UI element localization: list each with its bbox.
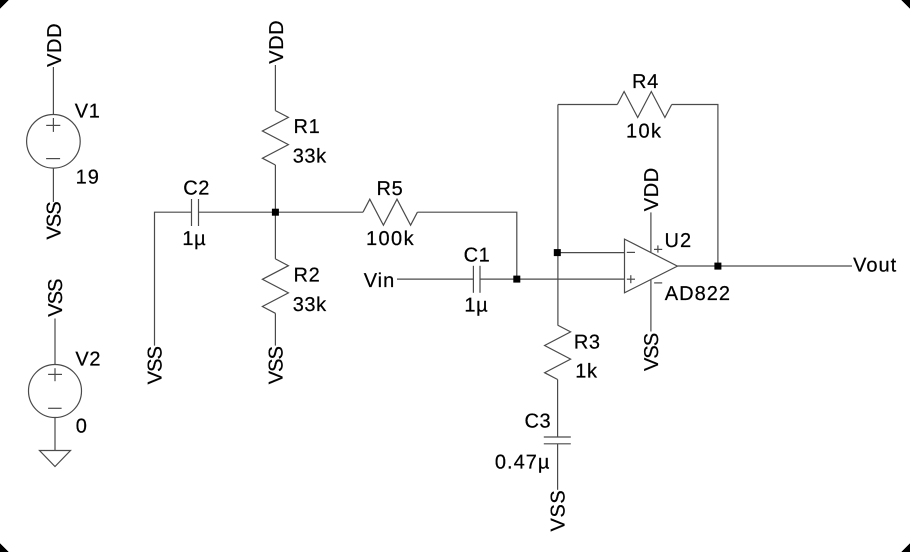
wire op-amp output to Vout [677, 265, 852, 267]
svg-text:R1: R1 [294, 116, 321, 138]
svg-text:AD822: AD822 [665, 283, 731, 305]
wire feedback node to op-amp - input [557, 252, 624, 254]
op-amp U2 VDD pin plus marker [654, 248, 662, 250]
svg-text:19: 19 [76, 167, 100, 189]
svg-text:1k: 1k [575, 361, 598, 383]
wire R2 to VSS [274, 313, 276, 345]
wire feedback vertical (R4 to R3) [557, 105, 559, 326]
op-amp U2 [625, 239, 678, 293]
op-amp U2 VSS pin [650, 280, 652, 332]
wire R1 to node A [274, 165, 276, 212]
svg-text:Vin: Vin [364, 270, 396, 292]
wire V1 top (VDD to V1.+) [52, 67, 54, 115]
wire R4 top left [558, 104, 617, 106]
wire Vin to C1 [397, 278, 473, 280]
wire VDD to R1 [274, 65, 276, 111]
capacitor C2 [191, 199, 193, 226]
op-amp U2 inverting input marker [627, 251, 635, 253]
svg-text:VSS: VSS [45, 279, 67, 317]
svg-text:VSS: VSS [266, 346, 288, 384]
svg-text:VSS: VSS [145, 346, 167, 384]
svg-text:VDD: VDD [266, 20, 288, 64]
svg-text:C2: C2 [183, 178, 210, 200]
svg-text:V2: V2 [75, 348, 101, 370]
op-amp U2 VDD pin [650, 212, 652, 252]
wire R5 to plus node [417, 212, 516, 279]
svg-text:V1: V1 [75, 100, 101, 122]
svg-text:C1: C1 [464, 245, 491, 267]
voltage source V1 [27, 115, 81, 169]
svg-text:10k: 10k [626, 121, 662, 143]
wire C2 to node A [199, 211, 276, 213]
svg-text:VDD: VDD [641, 167, 663, 211]
voltage source V2 [29, 365, 82, 418]
svg-text:VSS: VSS [548, 490, 570, 532]
svg-text:R3: R3 [574, 331, 601, 353]
resistor R4 [617, 92, 671, 118]
svg-text:0: 0 [76, 415, 88, 437]
svg-text:R5: R5 [377, 178, 404, 200]
svg-text:1µ: 1µ [464, 295, 488, 317]
wire C3 to VSS [557, 444, 559, 490]
wire C1 to op-amp + input [480, 278, 625, 280]
capacitor C3 [544, 436, 571, 438]
wire V2 bottom (V2.- to ground) [54, 418, 56, 451]
wire R3 to C3 [557, 380, 559, 438]
capacitor C1 [472, 266, 474, 293]
svg-text:0.47µ: 0.47µ [495, 451, 550, 473]
svg-text:VDD: VDD [44, 23, 66, 67]
wire V2 top (VSS to V2.+) [54, 319, 56, 365]
junction node A [272, 209, 279, 216]
resistor R2 [262, 259, 288, 313]
frame corners [0, 0, 9, 9]
resistor R1 [262, 111, 288, 165]
svg-text:Vout: Vout [853, 255, 897, 277]
svg-text:VSS: VSS [641, 333, 663, 371]
svg-text:U2: U2 [665, 230, 693, 252]
resistor R5 [363, 199, 417, 225]
svg-text:1µ: 1µ [182, 228, 206, 250]
wire node A to R5 [275, 211, 363, 213]
svg-text:R2: R2 [294, 264, 321, 286]
op-amp U2 VSS pin minus marker [654, 282, 662, 284]
svg-text:100k: 100k [366, 228, 415, 250]
resistor R3 [545, 325, 571, 379]
junction plus-input node [513, 276, 520, 283]
op-amp U2 non-inverting input marker [627, 278, 635, 280]
junction feedback node [554, 249, 561, 256]
wire V1 bottom (V1.- to VSS) [52, 168, 54, 202]
svg-text:33k: 33k [293, 294, 327, 316]
svg-text:VSS: VSS [44, 202, 66, 240]
wire node A to R2 [274, 212, 276, 259]
wire R4 to output [672, 105, 718, 267]
junction output node [714, 263, 721, 270]
ground [40, 451, 71, 467]
svg-text:C3: C3 [525, 411, 552, 433]
svg-text:R4: R4 [632, 71, 659, 93]
svg-text:33k: 33k [293, 146, 327, 168]
wire C2 left loop [155, 212, 192, 345]
